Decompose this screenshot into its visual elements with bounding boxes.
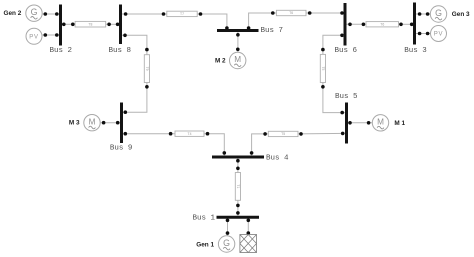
wire transformer T65 to Bus5 <box>323 83 345 113</box>
wire Bus7 to M2 <box>237 32 239 53</box>
breaker Gen2 bus side <box>55 12 59 16</box>
breaker line T28 left terminal <box>71 23 75 27</box>
svg-text:Bus 7: Bus 7 <box>261 27 284 35</box>
wire Bus8 to transformer T89 <box>122 35 147 54</box>
svg-text:T9: T9 <box>145 67 149 71</box>
wire Bus5 to line T54 <box>298 132 345 135</box>
wire Bus4 to transformer T41 <box>237 159 239 173</box>
svg-text:Bus 8: Bus 8 <box>109 47 132 55</box>
bus bar Bus 1 <box>217 216 260 219</box>
breaker line T76 right terminal <box>308 11 312 15</box>
wire Bus9 to line T94 <box>123 133 175 135</box>
breaker Bus8 top side <box>124 12 128 16</box>
wire Bus6 to line T63 <box>347 23 367 25</box>
breaker Bus6 right side <box>348 23 352 27</box>
breaker Bus1 upper side <box>236 211 240 215</box>
wire line T63 to Bus3 <box>399 23 414 25</box>
breaker Bus6 lower side <box>340 34 344 38</box>
breaker line T94 left terminal <box>169 132 173 136</box>
svg-text:PV: PV <box>29 35 39 41</box>
wire PV2 to Bus2 <box>42 34 59 36</box>
svg-text:T6: T6 <box>380 22 384 26</box>
transmission line T63 <box>366 22 399 27</box>
svg-text:M 2: M 2 <box>215 58 226 65</box>
breaker M3 side <box>102 121 106 125</box>
PV source PV3 <box>431 26 447 42</box>
breaker Bus2 side <box>62 23 66 27</box>
breaker PV2 bus side <box>55 33 59 37</box>
breaker T65 top terminal <box>321 48 325 52</box>
breaker Bus4 right side <box>250 151 254 155</box>
generator Gen 2 <box>26 5 42 21</box>
breaker T41 top terminal <box>236 167 240 171</box>
bus bar Bus 4 <box>212 156 264 159</box>
breaker M2 side <box>236 48 240 52</box>
svg-text:T4: T4 <box>188 132 192 136</box>
wire line T87 to Bus7 <box>197 14 227 29</box>
wire transformer T41 to Bus1 <box>237 200 239 216</box>
svg-text:G: G <box>31 7 38 17</box>
bus bar Bus 7 <box>217 29 259 32</box>
breaker Bus4 left side <box>223 151 227 155</box>
label Bus 6 <box>335 47 358 55</box>
breaker PV2 line side <box>44 33 48 37</box>
wire Bus8 to line T87 <box>122 13 167 15</box>
label Gen 3 <box>452 11 470 18</box>
breaker line T76 left terminal <box>271 11 275 15</box>
wire line T76 to Bus6 <box>306 12 344 14</box>
bus bar Bus 3 <box>413 3 416 45</box>
wire transformer T89 to Bus9 <box>123 83 147 113</box>
wire Bus2 to line T28 <box>62 23 75 25</box>
wire line T54 to Bus4 <box>252 134 269 156</box>
breaker T41 bottom terminal <box>236 204 240 208</box>
svg-text:Gen 2: Gen 2 <box>4 10 22 17</box>
breaker M1 side <box>367 121 371 125</box>
wire Bus6 to transformer T65 <box>323 35 344 54</box>
svg-text:T7: T7 <box>180 12 184 16</box>
transmission line T54 <box>268 131 298 136</box>
breaker Bus5 M1 side <box>348 121 352 125</box>
breaker Bus4 lower side <box>236 159 240 163</box>
svg-text:Bus 3: Bus 3 <box>404 47 427 55</box>
transmission line T76 <box>276 10 306 15</box>
generator Gen 1 <box>218 236 234 252</box>
label M 3 <box>69 120 80 127</box>
breaker line T63 left terminal <box>362 23 366 27</box>
bus bar Bus 9 <box>120 103 123 144</box>
wire Bus3 to Gen3 <box>416 13 431 15</box>
breaker Bus5 upper side <box>340 111 344 115</box>
svg-text:T5: T5 <box>321 66 325 70</box>
breaker load side <box>247 231 251 235</box>
transmission line T94 <box>175 131 204 136</box>
svg-text:M 3: M 3 <box>69 120 80 127</box>
breaker Gen2 line side <box>44 12 48 16</box>
breaker Bus8 side <box>116 23 120 27</box>
svg-text:Gen 1: Gen 1 <box>196 241 214 248</box>
label Bus 5 <box>335 93 358 101</box>
label Bus 7 <box>261 27 284 35</box>
label Bus 3 <box>404 47 427 55</box>
PV source PV2 <box>26 28 42 44</box>
svg-text:Bus 4: Bus 4 <box>266 154 289 162</box>
label Bus 2 <box>50 47 73 55</box>
breaker line T28 right terminal <box>107 23 111 27</box>
motor M2 <box>230 52 246 68</box>
breaker PV3 side <box>426 32 430 36</box>
svg-text:Bus 2: Bus 2 <box>50 47 73 55</box>
breaker line T54 left terminal <box>263 132 267 136</box>
svg-text:M: M <box>377 117 384 126</box>
svg-text:Bus 6: Bus 6 <box>335 47 358 55</box>
breaker Bus9 M3 side <box>116 121 120 125</box>
breaker Bus7 left side <box>225 26 229 30</box>
breaker Bus3 pv side <box>418 32 422 36</box>
wire M3 to Bus9 <box>100 122 120 124</box>
label Bus 4 <box>266 154 289 162</box>
wire Gen2 to Bus2 <box>42 13 59 15</box>
breaker Gen1 side <box>226 231 230 235</box>
transmission line T87 <box>167 11 197 16</box>
breaker Gen3 side <box>426 12 430 16</box>
label M 2 <box>215 58 226 65</box>
label Bus 1 <box>192 215 215 223</box>
transmission line T28 <box>75 21 106 27</box>
breaker Bus1 gen side <box>226 219 230 223</box>
breaker line T87 right terminal <box>199 12 203 16</box>
breaker line T87 left terminal <box>162 12 166 16</box>
breaker Bus9 upper side <box>124 110 128 114</box>
wire line T94 to Bus4 <box>204 134 224 156</box>
load external grid <box>240 235 257 253</box>
svg-text:M: M <box>89 117 96 126</box>
generator Gen 3 <box>430 6 446 22</box>
transformer T41 <box>235 173 240 201</box>
wire line T28 to Bus8 <box>106 23 119 25</box>
motor M1 <box>372 115 388 131</box>
svg-text:Bus 9: Bus 9 <box>110 145 133 153</box>
breaker Bus7 M2 side <box>236 33 240 37</box>
svg-text:PV: PV <box>434 32 444 38</box>
bus bar Bus 2 <box>59 5 62 46</box>
label Bus 9 <box>110 145 133 153</box>
breaker T89 top terminal <box>145 48 149 52</box>
breaker line T63 right terminal <box>399 23 403 27</box>
breaker Bus1 load side <box>247 219 251 223</box>
wire Bus5 to M1 <box>348 122 372 124</box>
bus bar Bus 5 <box>345 103 348 144</box>
svg-text:Bus 1: Bus 1 <box>192 215 215 223</box>
transformer T65 <box>320 54 325 82</box>
bus bar Bus 6 <box>344 3 347 46</box>
svg-text:Gen 3: Gen 3 <box>452 11 470 18</box>
breaker Bus5 lower side <box>341 132 345 136</box>
wire Bus7 to line T76 <box>249 13 277 29</box>
wire Bus1 to load <box>247 219 249 236</box>
svg-text:T8: T8 <box>88 22 92 26</box>
breaker Bus3 side <box>410 23 414 27</box>
label Bus 8 <box>109 47 132 55</box>
breaker Bus9 lower side <box>124 132 128 136</box>
bus bar Bus 8 <box>119 5 122 45</box>
svg-text:T5: T5 <box>281 132 285 136</box>
svg-text:Bus 5: Bus 5 <box>335 93 358 101</box>
breaker Bus7 right side <box>247 26 251 30</box>
label Gen 1 <box>196 241 214 248</box>
breaker T89 bottom terminal <box>145 85 149 89</box>
breaker Bus6 top side <box>340 11 344 15</box>
svg-text:G: G <box>435 8 442 18</box>
breaker line T54 right terminal <box>299 132 303 136</box>
label M 1 <box>394 120 405 127</box>
breaker line T94 right terminal <box>206 132 210 136</box>
svg-text:M: M <box>234 55 241 64</box>
svg-text:M 1: M 1 <box>394 120 405 127</box>
breaker T65 bottom terminal <box>321 85 325 89</box>
breaker Bus8 lower side <box>123 34 127 38</box>
transformer T89 <box>144 55 149 83</box>
motor M3 <box>84 115 100 131</box>
wire Bus3 to PV3 <box>416 33 431 35</box>
wire Bus1 to Gen1 <box>227 219 229 236</box>
breaker Bus3 gen side <box>418 12 422 16</box>
svg-text:T1: T1 <box>236 184 240 188</box>
label Gen 2 <box>4 10 22 17</box>
svg-text:T6: T6 <box>289 11 293 15</box>
svg-text:G: G <box>223 238 230 248</box>
